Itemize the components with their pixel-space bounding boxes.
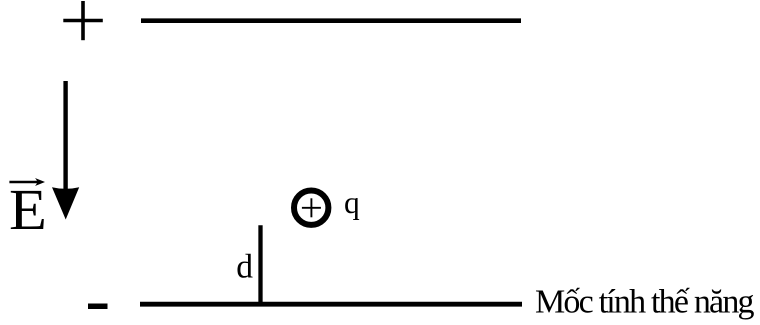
top plate line [141,18,521,23]
E field arrowhead [52,187,79,219]
svg-text:q: q [344,185,360,220]
E label vector arrow [9,178,45,186]
bottom plate line [140,302,522,307]
plus sign (top plate polarity) [63,1,103,40]
d distance line [258,225,262,304]
svg-text:E: E [9,177,47,242]
E field arrow shaft [63,81,67,193]
minus sign (bottom plate polarity) [88,304,108,310]
svg-text:Mốc tính thế năng: Mốc tính thế năng [535,284,755,321]
charge q circle [294,191,328,225]
svg-text:d: d [236,248,253,285]
plus inside charge [302,198,321,217]
